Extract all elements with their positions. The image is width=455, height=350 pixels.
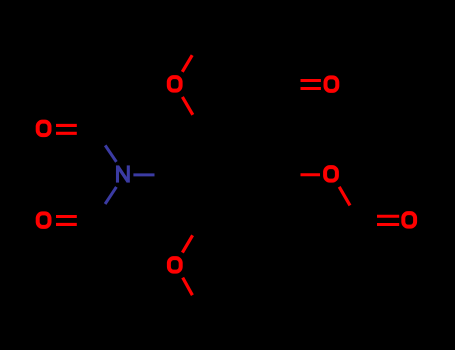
bond N to amide C1 (blue half): [105, 145, 116, 162]
ester carbonyl O (far right): [403, 213, 415, 227]
bond O to ring C2 (red half): [182, 97, 192, 115]
bond O to ester carbonyl C (red half): [339, 187, 350, 206]
bond ring C4 to O (red half): [301, 173, 321, 176]
methoxy O (bottom): [169, 258, 181, 272]
bond O to methyl C (red half): [182, 55, 192, 72]
amide 2 C=O double bond (red halves): [56, 217, 77, 225]
aldehyde C=O double bond (red halves): [301, 81, 321, 89]
N atom (imide nitrogen): [118, 165, 129, 182]
amide 1 C=O double bond (red halves): [56, 125, 77, 133]
methoxy O (top): [169, 77, 181, 91]
bond N to ring C1 (blue half): [133, 173, 154, 176]
ester O (right, ring side): [325, 167, 337, 181]
bond O to ring C6 (red half): [182, 235, 192, 252]
bond O to methyl C (red half): [183, 278, 193, 296]
bond N to amide C2 (blue half): [105, 187, 116, 204]
aldehyde O (top right): [326, 77, 338, 91]
benzene ring C1-C6 (black bonds, invisible on black): [176, 129, 282, 220]
black halves of substituent bonds (invisible): [77, 38, 377, 311]
amide 2 carbonyl O (bottom left): [38, 213, 50, 227]
amide 1 carbonyl O (top left): [38, 122, 50, 136]
ester C=O double bond (red halves): [377, 216, 399, 224]
